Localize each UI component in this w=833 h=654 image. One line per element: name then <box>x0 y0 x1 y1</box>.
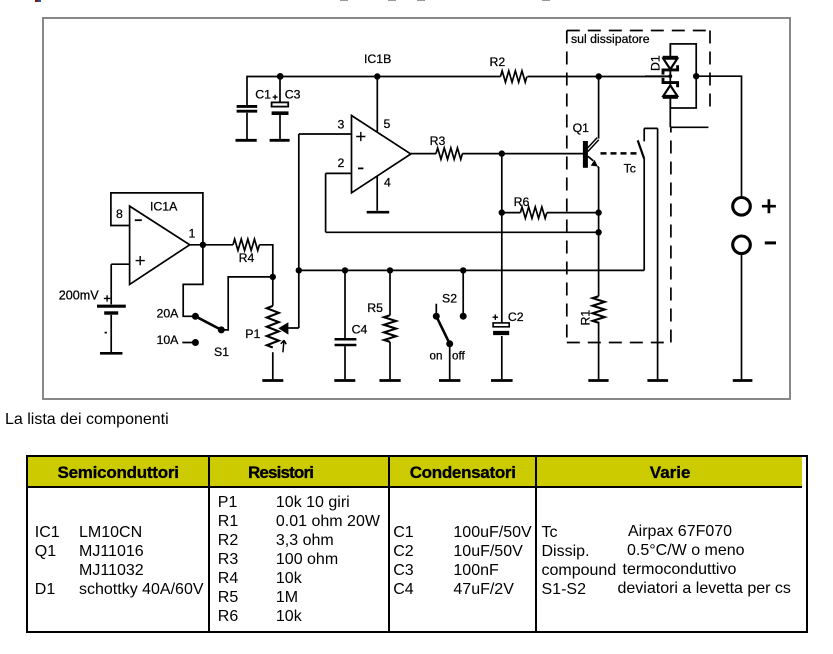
svg-text:20A: 20A <box>157 307 180 321</box>
svg-text:C3: C3 <box>285 87 301 101</box>
svg-text:C2: C2 <box>508 310 524 324</box>
svg-text:R5: R5 <box>367 301 383 315</box>
svg-text:IC1B: IC1B <box>364 52 391 66</box>
svg-text:R3: R3 <box>430 134 446 148</box>
svg-text:200mV: 200mV <box>59 288 100 302</box>
svg-text:C4: C4 <box>352 323 368 337</box>
svg-text:IC1A: IC1A <box>150 200 178 214</box>
svg-text:1: 1 <box>189 227 196 241</box>
svg-text:off: off <box>452 350 465 363</box>
svg-text:R4: R4 <box>239 251 255 265</box>
svg-text:8: 8 <box>116 207 123 221</box>
svg-text:4: 4 <box>384 175 391 189</box>
svg-text:5: 5 <box>384 117 391 131</box>
svg-text:S2: S2 <box>442 292 457 306</box>
svg-text:C1: C1 <box>255 87 271 101</box>
svg-text:D1: D1 <box>649 55 663 71</box>
svg-text:R2: R2 <box>490 55 506 69</box>
svg-text:3: 3 <box>338 118 345 132</box>
svg-text:10A: 10A <box>157 333 180 347</box>
svg-text:R1: R1 <box>579 310 593 326</box>
svg-text:Q1: Q1 <box>573 121 590 135</box>
svg-text:sul dissipatore: sul dissipatore <box>571 32 650 46</box>
svg-text:R6: R6 <box>514 195 530 209</box>
svg-text:Tc: Tc <box>624 162 636 176</box>
svg-text:2: 2 <box>338 156 345 170</box>
svg-text:P1: P1 <box>245 327 260 341</box>
svg-text:S1: S1 <box>214 345 229 359</box>
svg-text:on: on <box>430 350 443 363</box>
